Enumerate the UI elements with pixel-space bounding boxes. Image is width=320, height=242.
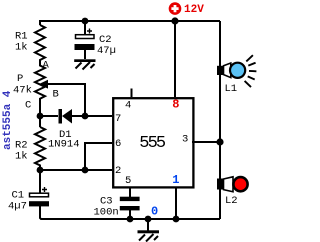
wire C node to D1: [40, 115, 58, 117]
potentiometer P body: [35, 62, 45, 116]
junction dot pin1 ground: [173, 216, 180, 223]
svg-text:C: C: [25, 100, 31, 112]
svg-text:47µ: 47µ: [97, 45, 116, 57]
junction dot pin6 branch: [82, 167, 89, 174]
capacitor C2 negative plate: [75, 44, 95, 50]
power +12V symbol: [169, 2, 182, 15]
op-amp U1 555 IC box: [113, 98, 193, 187]
junction dot 12V: [171, 17, 178, 24]
lamp L1 socket: [217, 66, 224, 75]
junction dot pin3 rail: [216, 138, 223, 145]
capacitor C3 plate bottom: [120, 206, 140, 210]
diode D1 cathode bar: [59, 109, 63, 124]
junction dot C3 ground: [127, 216, 134, 223]
wire pin4 stub: [131, 89, 133, 98]
capacitor C1 positive plate: [30, 193, 49, 197]
wire pin5 to C3: [129, 187, 131, 197]
potentiometer P wiper arrow: [39, 80, 49, 89]
ground symbol under C2: [74, 59, 95, 69]
svg-text:0: 0: [151, 205, 158, 219]
resistor R1: [35, 25, 45, 62]
wire ground rail: [130, 218, 220, 220]
lamp L2 neck: [224, 177, 234, 192]
junction dot C2 top rail: [82, 18, 89, 25]
wire wiper B to x85: [46, 84, 85, 116]
wire pin3 to lamp rail: [192, 141, 220, 143]
diode D1 triangle: [62, 109, 72, 124]
wire pin6 branch: [85, 143, 112, 170]
svg-text:1N914: 1N914: [48, 139, 80, 151]
svg-text:3: 3: [182, 134, 188, 146]
lamp L2 socket: [217, 179, 224, 190]
svg-text:P: P: [17, 73, 23, 85]
svg-text:100n: 100n: [94, 207, 119, 219]
wire R2 node down to C1: [39, 170, 41, 193]
wire rail to C2: [84, 21, 86, 34]
wire 12V to pin8: [174, 21, 176, 97]
wire R2 node to pin2: [40, 169, 112, 171]
lamp L1 neck: [224, 63, 231, 78]
junction dot C node (left, D1 anode wire): [37, 113, 44, 120]
svg-text:5: 5: [125, 175, 131, 187]
svg-text:12V: 12V: [184, 4, 204, 16]
svg-text:6: 6: [115, 138, 121, 150]
capacitor C2 positive plate: [76, 35, 95, 39]
lamp L1 bulb: [230, 63, 245, 78]
svg-text:8: 8: [172, 98, 179, 112]
svg-text:4µ7: 4µ7: [8, 201, 27, 213]
resistor R2: [35, 127, 45, 170]
wire C3 to ground rail: [129, 210, 131, 219]
capacitor C2 plus sign: [87, 29, 92, 34]
wire left rail top (rail to R1): [39, 20, 41, 25]
ground symbol bottom: [138, 219, 160, 242]
svg-text:L2: L2: [225, 195, 238, 207]
wire C2 to ground: [84, 50, 86, 60]
junction dot wiper/diode: [82, 113, 89, 120]
capacitor C1 negative plate: [29, 201, 49, 206]
svg-text:L1: L1: [225, 83, 238, 95]
svg-text:4: 4: [125, 99, 131, 111]
wire pin1 to ground rail: [175, 187, 177, 219]
svg-text:7: 7: [115, 113, 121, 125]
wire C1 to ground rail: [40, 206, 130, 219]
svg-text:47k: 47k: [13, 85, 32, 97]
capacitor C3 plate top: [120, 197, 140, 201]
wire C node to R2: [39, 116, 41, 127]
svg-text:ast555a 4: ast555a 4: [2, 90, 14, 150]
svg-text:B: B: [53, 89, 59, 101]
svg-text:1: 1: [172, 173, 179, 187]
lamp L1 rays: [245, 55, 257, 87]
wire top rail +12V net: [40, 20, 220, 22]
svg-text:1k: 1k: [15, 151, 28, 163]
svg-text:555: 555: [139, 134, 166, 153]
junction dot ground stem: [145, 216, 152, 223]
junction dot R2 bottom node: [37, 167, 44, 174]
svg-text:2: 2: [115, 165, 121, 177]
capacitor C1 plus sign: [42, 187, 47, 192]
svg-text:1k: 1k: [15, 42, 28, 54]
lamp L2 bulb: [233, 177, 247, 191]
wire D1 to pin7: [72, 115, 112, 117]
wire right lamp rail: [219, 21, 221, 219]
